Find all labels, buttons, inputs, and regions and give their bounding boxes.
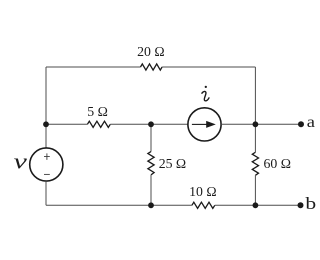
svg-text:10 Ω: 10 Ω bbox=[189, 184, 217, 199]
wire right rail: node R down to 60ohm bbox=[254, 124, 256, 152]
svg-text:a: a bbox=[307, 114, 315, 131]
wire middle rail: current source to node R bbox=[221, 123, 255, 125]
resistor 20ohm zigzag bbox=[141, 64, 163, 70]
wire node to terminal b bbox=[255, 204, 300, 206]
wire middle rail: 5ohm to node M bbox=[110, 123, 151, 125]
node junction bottom right bbox=[253, 202, 259, 208]
wire bottom: node to 10ohm bbox=[151, 204, 192, 206]
wire middle rail: node L to 5ohm bbox=[46, 123, 87, 125]
svg-text:v: v bbox=[14, 149, 28, 174]
wire node R to terminal a bbox=[255, 123, 301, 125]
wire right rail: 60ohm to bottom node bbox=[254, 175, 256, 205]
voltage source plus sign bbox=[44, 153, 50, 160]
node junction right (60ohm top) bbox=[253, 121, 259, 127]
wire bottom rail left segment bbox=[46, 204, 151, 206]
wire top rail left of 20ohm bbox=[46, 66, 141, 68]
voltage source circle bbox=[30, 148, 63, 181]
node junction left (top of source) bbox=[43, 121, 49, 127]
resistor 25ohm zigzag bbox=[148, 152, 154, 175]
node junction middle (5ohm/25ohm) bbox=[148, 121, 154, 127]
current source circle bbox=[188, 108, 221, 141]
node junction bottom middle bbox=[148, 202, 154, 208]
current source arrow bbox=[192, 121, 216, 128]
resistor 10ohm zigzag bbox=[192, 202, 215, 208]
terminal b dot bbox=[298, 202, 304, 208]
wire middle rail: node M to current source bbox=[151, 123, 188, 125]
svg-text:20 Ω: 20 Ω bbox=[137, 44, 165, 59]
wire left rail upper vertical bbox=[45, 67, 47, 124]
terminal a dot bbox=[298, 121, 304, 127]
wire left rail lower vertical bbox=[45, 181, 47, 205]
wire left rail: node L down to voltage source bbox=[45, 124, 47, 148]
label i (math italic) bbox=[202, 86, 209, 101]
resistor 60ohm zigzag bbox=[252, 152, 258, 175]
wire mid rail: 25ohm to bottom node bbox=[150, 175, 152, 205]
svg-text:5 Ω: 5 Ω bbox=[87, 104, 108, 119]
svg-text:b: b bbox=[305, 194, 316, 213]
wire top rail right of 20ohm bbox=[162, 66, 255, 68]
wire bottom: 10ohm to node bbox=[215, 204, 256, 206]
voltage source minus sign bbox=[44, 173, 50, 175]
wire mid rail: node M down to 25ohm bbox=[150, 124, 152, 151]
wire right rail upper bbox=[254, 67, 256, 124]
resistor 5ohm zigzag bbox=[87, 121, 110, 127]
svg-text:60 Ω: 60 Ω bbox=[264, 156, 292, 171]
svg-text:25 Ω: 25 Ω bbox=[159, 156, 187, 171]
